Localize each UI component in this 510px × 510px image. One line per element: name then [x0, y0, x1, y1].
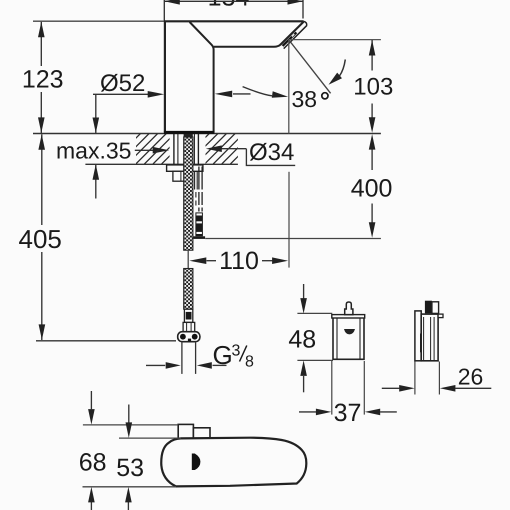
control box side view [415, 311, 421, 361]
threaded shank / braided hose upper [184, 134, 193, 138]
svg-text:123: 123 [22, 66, 64, 94]
dim 37 [331, 361, 333, 415]
water stream 38deg line [289, 41, 330, 94]
sensor cable [198, 167, 200, 190]
box top connector [345, 302, 353, 315]
box smile mark [344, 329, 355, 334]
svg-text:Ø52: Ø52 [100, 70, 145, 97]
svg-text:8: 8 [245, 354, 254, 371]
svg-text:48: 48 [288, 326, 316, 354]
faucet inner diagonal + right column edge [190, 22, 214, 133]
spout tip aerator face [280, 22, 303, 45]
bottom unit tab right [193, 428, 210, 439]
extension line left x164 [163, 0, 165, 21]
reference line top [33, 20, 165, 22]
mounting flange below counter [167, 165, 203, 171]
svg-text:103: 103 [353, 74, 393, 101]
countertop hatching right [110, 134, 278, 165]
spout outlet vertical reference [288, 40, 290, 134]
svg-text:405: 405 [19, 224, 62, 254]
G3/8 threaded pipe [181, 342, 183, 374]
extension line right x303 [302, 0, 304, 19]
hose centerline in break [187, 250, 189, 269]
faucet body left edge [164, 21, 166, 132]
countertop top line [33, 133, 381, 135]
svg-text:37: 37 [334, 399, 362, 427]
control box front view [333, 318, 364, 360]
bottom unit tab left [178, 424, 193, 438]
lock nut [173, 171, 190, 181]
spout underside [214, 45, 281, 47]
dim G3/8 [146, 364, 165, 366]
dim 68/53 extension lines [83, 424, 178, 426]
cable connector plug [195, 212, 203, 236]
box flange [332, 315, 365, 318]
faucet spout top edge [164, 20, 304, 22]
reference line y238.5 [205, 238, 381, 240]
dim 26 [414, 362, 416, 395]
svg-text:max.35: max.35 [56, 138, 131, 164]
max.35 vertical arrows [95, 95, 97, 133]
side top connector [425, 301, 432, 314]
svg-text:400: 400 [351, 174, 393, 202]
svg-text:110: 110 [219, 247, 259, 275]
shank walls [173, 134, 175, 165]
reference line y340.8 [36, 340, 176, 342]
38deg arc arrow [339, 60, 345, 77]
38deg leader arrow [243, 87, 272, 96]
outlet horizontal reference [289, 39, 381, 41]
dim 48 [297, 312, 332, 314]
braided hose lower [184, 269, 193, 310]
svg-text:Ø34: Ø34 [249, 139, 294, 166]
svg-text:26: 26 [458, 364, 484, 390]
svg-text:53: 53 [116, 454, 144, 482]
svg-text:68: 68 [79, 449, 107, 477]
countertop hatching left [110, 134, 278, 165]
countertop bottom line [85, 163, 238, 165]
faucet base line [164, 131, 215, 134]
fitting neck [183, 322, 195, 332]
hose end fitting [184, 309, 192, 322]
svg-text:G: G [213, 340, 233, 370]
svg-text:38: 38 [292, 86, 318, 112]
hex nut [178, 332, 200, 342]
sensor D mark [192, 454, 201, 471]
bottom unit body [161, 438, 306, 487]
side flange tab [438, 314, 443, 318]
svg-text:3: 3 [232, 343, 241, 360]
riser tube [194, 172, 196, 190]
